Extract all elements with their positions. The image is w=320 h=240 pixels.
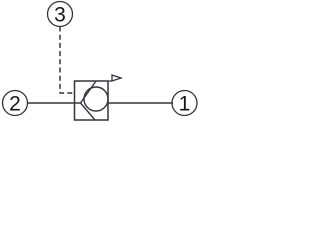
check valve seat (81, 81, 97, 120)
check valve ball (84, 87, 108, 111)
node 2 port circle (3, 91, 28, 116)
check valve V1 body (75, 81, 109, 120)
flag triangle (top right) (108, 75, 121, 81)
wire valve to port1 (108, 102, 173, 104)
svg-text:3: 3 (54, 4, 66, 27)
node 1 port circle (172, 91, 197, 116)
svg-text:2: 2 (9, 93, 21, 116)
node 3 port circle (48, 2, 73, 27)
svg-text:1: 1 (179, 93, 191, 116)
pilot line (dashed) (60, 27, 74, 94)
wire port2 to valve (27, 102, 81, 104)
